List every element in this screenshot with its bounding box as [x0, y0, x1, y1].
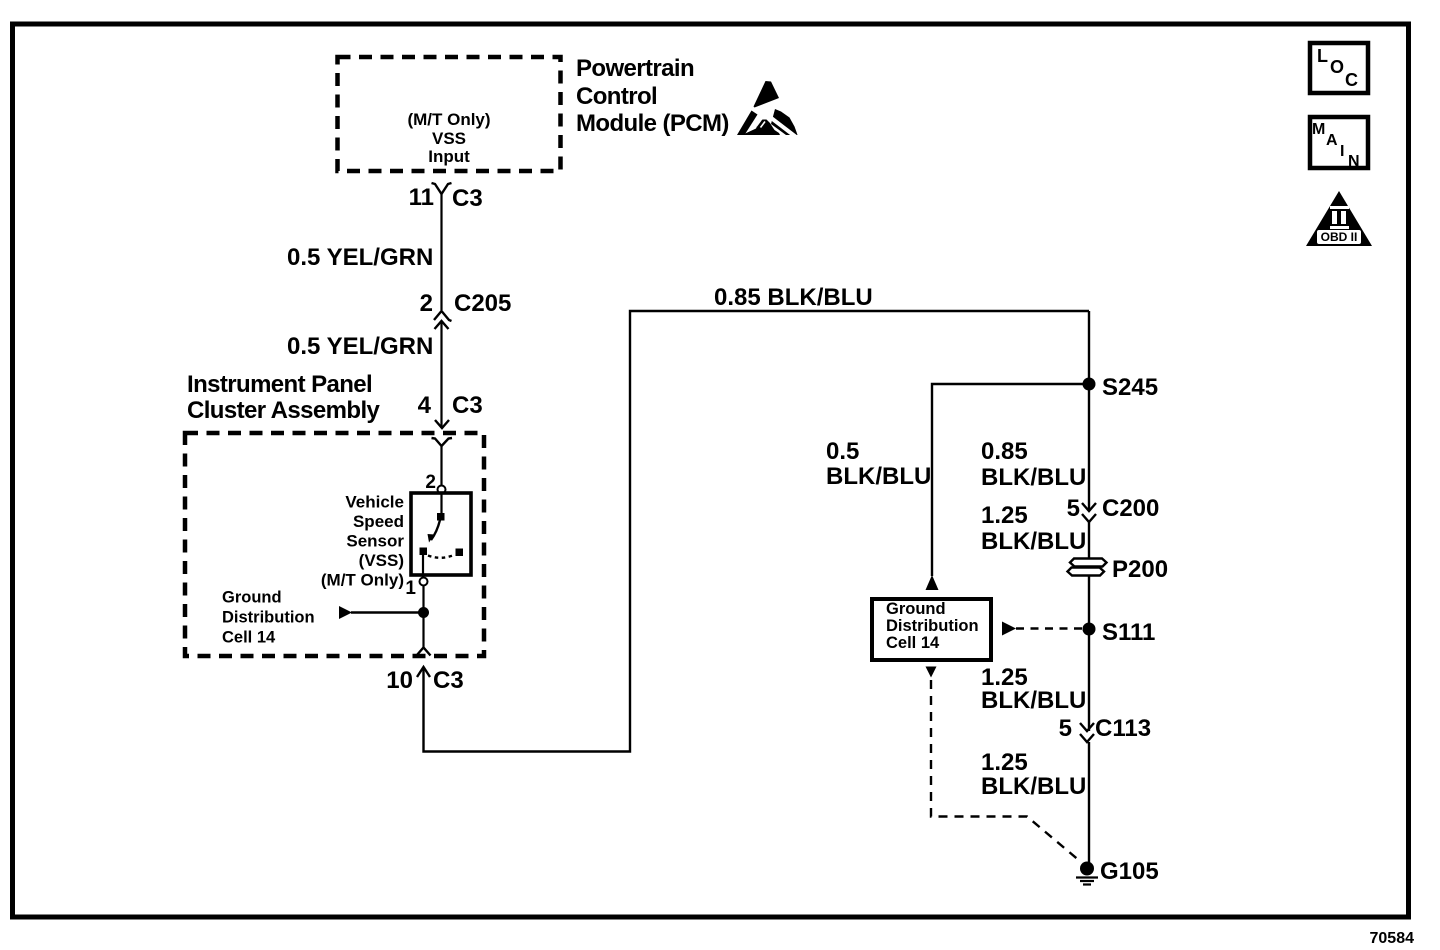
- wire pin1 to junction: [422, 586, 424, 613]
- wire down to S245: [1088, 311, 1090, 390]
- ground distribution reference (left): [222, 589, 424, 647]
- svg-text:Speed: Speed: [353, 512, 404, 531]
- svg-text:Sensor: Sensor: [346, 532, 404, 551]
- svg-text:1.25: 1.25: [981, 749, 1028, 776]
- svg-text:Cell 14: Cell 14: [222, 629, 276, 647]
- wire S111 to C113: [1088, 629, 1090, 731]
- label Instrument Panel Cluster Assembly: [187, 371, 381, 424]
- svg-text:M: M: [1312, 121, 1325, 138]
- svg-text:C: C: [1345, 70, 1358, 90]
- Instrument Panel Cluster dashed box: [185, 433, 484, 656]
- svg-text:P200: P200: [1112, 556, 1168, 583]
- svg-text:11: 11: [409, 184, 434, 211]
- svg-text:Vehicle: Vehicle: [345, 493, 404, 512]
- svg-text:BLK/BLU: BLK/BLU: [826, 463, 931, 490]
- wire bottom run: down, right, up: [424, 311, 1090, 752]
- label 1.25 BLK/BLU third: [981, 749, 1086, 800]
- svg-text:70584: 70584: [1370, 930, 1415, 947]
- pin 1 of VSS: [405, 578, 427, 600]
- ground G105: [1076, 858, 1159, 885]
- svg-text:C3: C3: [433, 667, 464, 694]
- label 1.25 BLK/BLU second: [981, 664, 1086, 714]
- PCM dashed box: [338, 57, 561, 171]
- svg-text:S245: S245: [1102, 374, 1158, 401]
- svg-text:0.85: 0.85: [981, 438, 1028, 465]
- svg-text:(VSS): (VSS): [359, 551, 404, 570]
- wire S245 to C200: [1088, 384, 1090, 511]
- svg-text:(M/T Only): (M/T Only): [321, 571, 404, 590]
- svg-text:G105: G105: [1100, 858, 1159, 885]
- svg-text:0.5 YEL/GRN: 0.5 YEL/GRN: [287, 333, 433, 360]
- svg-text:S111: S111: [1102, 619, 1155, 646]
- svg-text:O: O: [1330, 57, 1344, 77]
- label 0.85 BLK/BLU right: [981, 438, 1086, 491]
- svg-text:10: 10: [386, 667, 413, 694]
- svg-text:1.25: 1.25: [981, 502, 1028, 529]
- svg-text:5: 5: [1059, 715, 1072, 742]
- svg-text:Distribution: Distribution: [222, 609, 315, 627]
- svg-text:VSS: VSS: [432, 129, 466, 148]
- ground distribution box (right): [872, 599, 991, 660]
- connector C113 pin 5: [1059, 715, 1151, 742]
- connector C205 pin 2: [420, 290, 512, 329]
- wire junction to box edge fork: [422, 613, 424, 648]
- dashed reference to S111: [1002, 622, 1082, 636]
- svg-text:Powertrain: Powertrain: [576, 55, 694, 82]
- svg-text:BLK/BLU: BLK/BLU: [981, 464, 1086, 491]
- svg-text:4: 4: [418, 392, 432, 419]
- svg-text:Cell 14: Cell 14: [886, 634, 940, 652]
- label 1.25 BLK/BLU first: [981, 502, 1086, 555]
- wire S245 left branch 0.5 BLK/BLU: [932, 384, 1089, 576]
- svg-text:Control: Control: [576, 83, 657, 110]
- svg-text:A: A: [1326, 132, 1338, 149]
- svg-text:C3: C3: [452, 392, 483, 419]
- label 0.5 BLK/BLU: [826, 438, 931, 490]
- svg-text:Instrument Panel: Instrument Panel: [187, 371, 372, 398]
- wire P200 to S111: [1088, 576, 1090, 629]
- svg-text:5: 5: [1067, 495, 1080, 522]
- svg-text:BLK/BLU: BLK/BLU: [981, 528, 1086, 555]
- svg-text:C113: C113: [1095, 715, 1151, 742]
- svg-text:0.85 BLK/BLU: 0.85 BLK/BLU: [714, 284, 873, 311]
- VSS switch symbol: [420, 493, 464, 578]
- VSS box: [411, 493, 471, 575]
- svg-text:L: L: [1317, 46, 1328, 66]
- grommet P200: [1068, 556, 1169, 583]
- svg-text:BLK/BLU: BLK/BLU: [981, 687, 1086, 714]
- svg-text:Ground: Ground: [222, 589, 282, 607]
- PCM box inner text (M/T Only) VSS Input: [407, 110, 490, 166]
- ESD sensitive symbol: [737, 81, 798, 139]
- svg-text:(M/T Only): (M/T Only): [407, 110, 490, 129]
- svg-text:0.5: 0.5: [826, 438, 859, 465]
- wire fork to pin 2: [440, 446, 442, 486]
- svg-text:Ground: Ground: [886, 600, 946, 618]
- pin 2 of VSS: [425, 472, 445, 494]
- svg-text:N: N: [1348, 153, 1360, 170]
- MAIN icon: [1310, 117, 1368, 170]
- svg-text:OBD II: OBD II: [1321, 230, 1358, 244]
- connector C3 pin 4 (arrow into IPC box): [418, 392, 483, 446]
- svg-text:C200: C200: [1102, 495, 1159, 522]
- PCM title: Powertrain Control Module (PCM): [576, 55, 729, 137]
- connector C3 pin 10 (exit of IPC box): [386, 648, 463, 695]
- arrow above ground distribution box: [926, 575, 939, 590]
- svg-text:2: 2: [425, 472, 436, 493]
- VSS text: [321, 493, 404, 590]
- svg-text:1: 1: [405, 578, 416, 599]
- wire C205 to C3 pin4: [440, 321, 442, 428]
- svg-text:C3: C3: [452, 185, 483, 212]
- svg-text:Cluster Assembly: Cluster Assembly: [187, 397, 381, 424]
- LOC icon: [1310, 43, 1368, 93]
- junction dot in IPC: [418, 607, 429, 618]
- svg-text:I: I: [1340, 143, 1344, 160]
- svg-text:0.5 YEL/GRN: 0.5 YEL/GRN: [287, 244, 433, 271]
- svg-text:2: 2: [420, 290, 433, 317]
- OBD II icon: [1306, 191, 1372, 246]
- node S245: [1083, 374, 1159, 401]
- svg-text:C205: C205: [454, 290, 511, 317]
- svg-text:Distribution: Distribution: [886, 617, 979, 635]
- wire C200 to P200: [1088, 522, 1090, 560]
- connector C200 pin 5: [1067, 495, 1160, 522]
- svg-text:Module (PCM): Module (PCM): [576, 110, 729, 137]
- wire PCM to C205: [440, 194, 442, 310]
- svg-text:Input: Input: [428, 147, 470, 166]
- svg-text:BLK/BLU: BLK/BLU: [981, 773, 1086, 800]
- connector C3 pin 11 (fork at PCM): [409, 183, 483, 212]
- arrow below ground distribution box and dashed route to G105: [926, 667, 1082, 863]
- node S111: [1083, 619, 1156, 646]
- wire C113 to G105: [1088, 742, 1090, 866]
